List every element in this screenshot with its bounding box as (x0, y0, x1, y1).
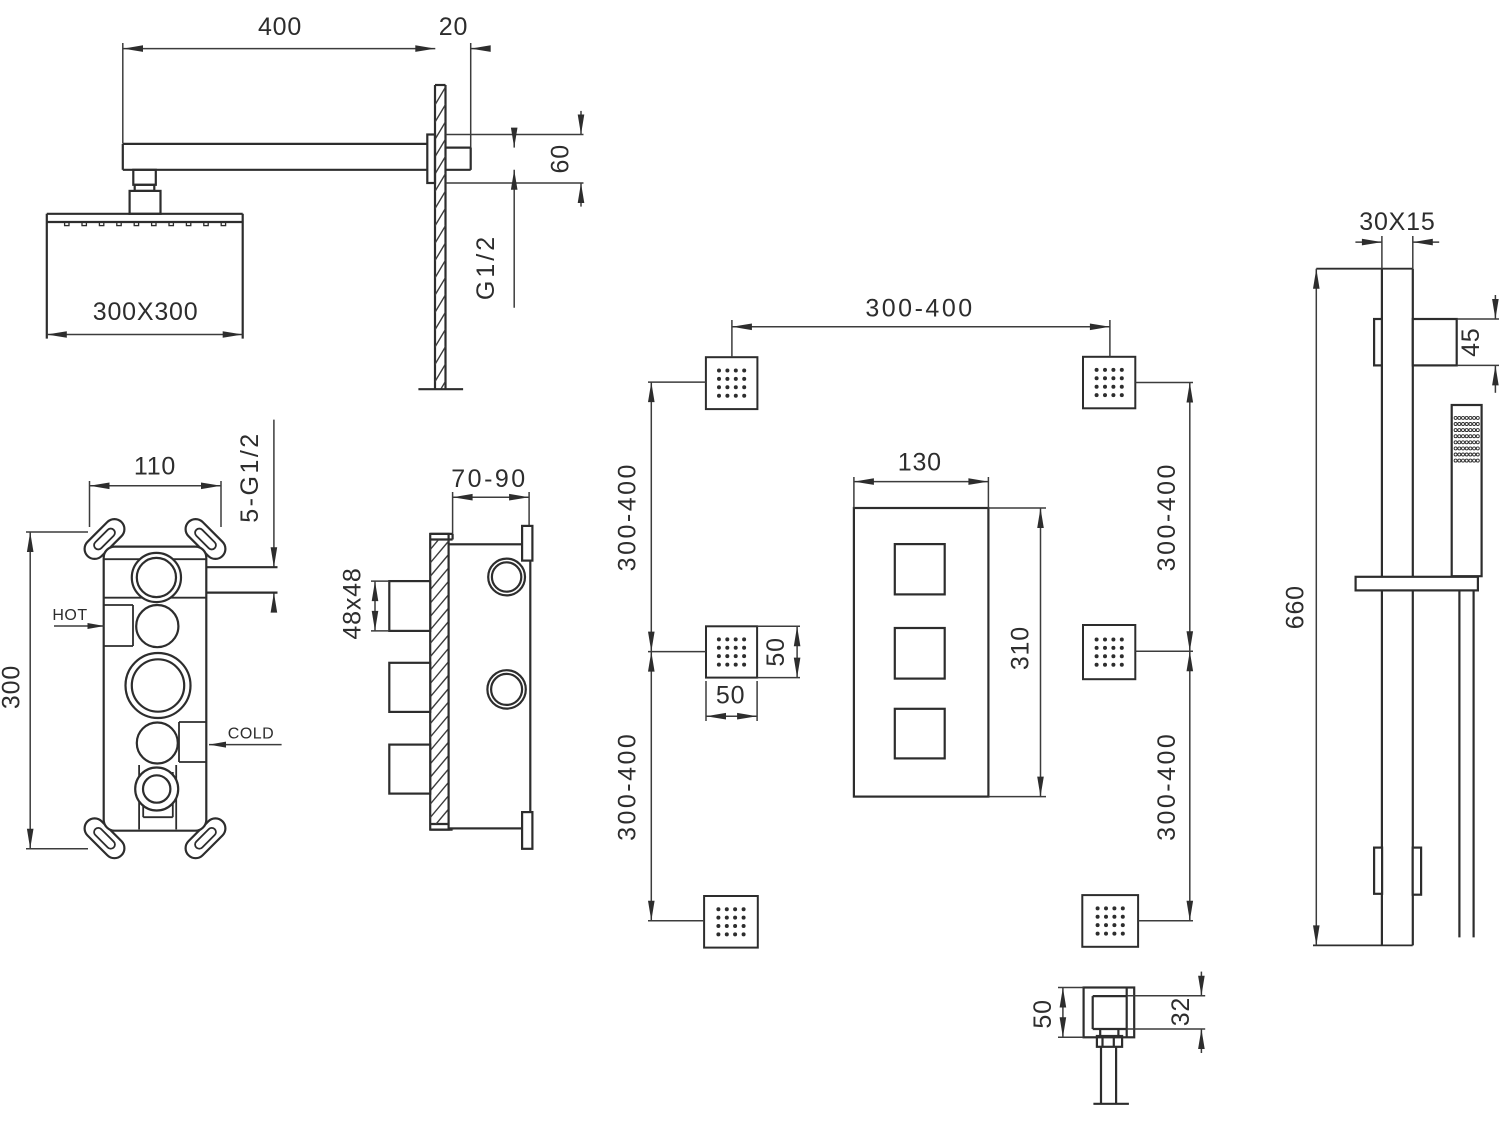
valve body section line 2 (104, 597, 207, 599)
COLD arrow (209, 744, 282, 746)
svg-text:300-400: 300-400 (865, 295, 974, 323)
svg-text:COLD: COLD (228, 725, 274, 742)
svg-text:45: 45 (1457, 327, 1485, 356)
bottom outlet housing (138, 765, 140, 829)
svg-text:5-G1/2: 5-G1/2 (236, 431, 264, 522)
hand shower (1452, 405, 1482, 576)
body jet top-right (1083, 357, 1135, 409)
dimension 5-G1/2 leader (273, 420, 275, 568)
dimension 20 right extension line (470, 43, 472, 170)
rail bottom clamp left (1374, 848, 1382, 894)
svg-text:32: 32 (1167, 997, 1195, 1026)
dimension 300-400 left lower line (650, 652, 652, 921)
valve port circle 1 (132, 553, 181, 602)
slide rail top edge / 660 top extension (1316, 268, 1413, 270)
dimension 300-400 right upper line (1189, 383, 1191, 652)
jet dimension 50 height extensions (757, 625, 800, 627)
dimension 70-90 extension lines (452, 492, 454, 534)
dimension 300 line with arrows (29, 532, 31, 849)
svg-text:300-400: 300-400 (613, 732, 641, 841)
svg-text:310: 310 (1006, 626, 1034, 670)
wall bracket (1413, 319, 1457, 365)
body jet bottom-right (1082, 895, 1138, 947)
svg-text:400: 400 (258, 13, 302, 41)
outlet elbow inner face (1093, 995, 1127, 997)
outlet break line (1093, 1103, 1129, 1105)
valve mounting ear bottom-right (181, 814, 229, 862)
bottom outlet inner window (143, 816, 173, 818)
svg-text:G1/2: G1/2 (472, 234, 500, 300)
outlet elbow body (1084, 988, 1135, 1038)
side fixing tab bottom (522, 812, 532, 849)
svg-text:60: 60 (547, 144, 575, 173)
elbow dimension 32 extensions (1127, 995, 1206, 997)
shower hose (1458, 590, 1460, 937)
dimension 30X15 arrows (1355, 241, 1382, 243)
svg-text:130: 130 (898, 449, 942, 477)
svg-text:30X15: 30X15 (1359, 208, 1435, 236)
dimension 110 extension lines (89, 481, 91, 527)
cold inlet boss (179, 721, 206, 723)
dimension 20 right arrow (471, 48, 487, 50)
rain shower head 300X300 (47, 213, 243, 215)
valve port circle 3 (126, 653, 191, 718)
body jet middle-right (1083, 625, 1135, 679)
slide rail (1381, 269, 1383, 946)
wall section (hatched) (434, 85, 436, 389)
valve mounting ear top-left (80, 515, 128, 563)
svg-text:300X300: 300X300 (93, 298, 199, 326)
control knob square 1 (389, 581, 430, 631)
dimension 130 extension lines (853, 477, 855, 508)
dimension 300 extension lines (26, 531, 88, 533)
side fixing tab top (522, 526, 532, 561)
svg-text:HOT: HOT (52, 607, 87, 624)
side port circle top (488, 559, 525, 596)
dimension 400 left extension line (122, 43, 124, 144)
dimension 45 arrows (1494, 295, 1496, 319)
wall flange escutcheon (427, 135, 435, 184)
svg-text:110: 110 (134, 453, 176, 481)
left dim column extension lines (648, 381, 706, 383)
dimension 300-400 right lower line (1189, 651, 1191, 921)
dimension 45 extension lines (1457, 318, 1499, 320)
dimension 70-90 line with arrows (453, 496, 529, 498)
floor line under wall (418, 388, 463, 390)
dimension 48x48 line with arrows (374, 581, 376, 631)
outlet elbow nut (1097, 1036, 1122, 1047)
svg-text:660: 660 (1282, 585, 1310, 629)
hand shower holder (1356, 577, 1478, 591)
body jet middle-left (706, 626, 757, 677)
valve outlet pipe right (206, 566, 277, 568)
dimension 660 line with arrows (1315, 269, 1317, 946)
jet dimension 50 height line (796, 626, 798, 677)
svg-text:50: 50 (716, 682, 745, 710)
dimension 300X300 line with arrows (47, 334, 243, 336)
dimension 30X15 extension lines (1381, 236, 1383, 269)
valve mounting ear top-right (181, 515, 229, 563)
dimension 130 line with arrows (854, 481, 989, 483)
elbow dimension 50 extensions (1058, 987, 1084, 989)
valve body side view (449, 544, 531, 828)
control knob square 2 (389, 663, 430, 712)
dimension 310 extension lines (988, 507, 1046, 509)
rail bracket pad left (1374, 319, 1382, 365)
valve cartridge circle 2 (136, 605, 178, 647)
arm-to-head swivel cone (130, 191, 161, 214)
jet dimension 50 width line (706, 715, 757, 717)
plate button 2 (895, 628, 945, 679)
dimension 48x48 extension lines (371, 580, 389, 582)
shower arm (123, 143, 428, 145)
valve port circle 5 (135, 768, 178, 811)
svg-text:300-400: 300-400 (613, 462, 641, 571)
svg-text:300: 300 (0, 665, 25, 709)
control plate (854, 508, 989, 797)
dimension 60 arrows (580, 111, 582, 135)
dimension 300-400 left upper line (650, 382, 652, 651)
valve mounting ear bottom-left (80, 814, 128, 862)
elbow dimension 50 line (1062, 988, 1064, 1038)
valve body section line upper (104, 558, 207, 560)
dimension 310 line with arrows (1040, 508, 1042, 797)
svg-text:50: 50 (762, 637, 790, 666)
arm-to-head connector nut (133, 170, 156, 185)
plate button 1 (895, 544, 945, 594)
HOT arrow (54, 625, 105, 627)
right dim column extension lines (1135, 382, 1193, 384)
arm-to-head connector collar (135, 185, 155, 191)
outlet hose tail pipe (1100, 1047, 1102, 1104)
svg-text:70-90: 70-90 (451, 465, 527, 493)
plaster guard (hatched strip) (430, 534, 448, 830)
svg-text:48x48: 48x48 (339, 567, 367, 639)
valve cartridge circle 4 (137, 723, 178, 764)
thread G1/2 leader line (513, 135, 515, 148)
body jet top-left (706, 357, 758, 409)
dimension 300-400 top drop lines (731, 320, 733, 357)
jet dimension 50 width extensions (705, 681, 707, 721)
dimension 400 line with arrows (123, 48, 435, 50)
slide rail bottom edge / 660 bottom extension (1313, 944, 1413, 946)
dimension 300-400 top line with arrows (732, 326, 1110, 328)
svg-text:300-400: 300-400 (1153, 732, 1181, 841)
outlet elbow neck (1099, 1029, 1101, 1036)
side port circle bottom (487, 670, 525, 708)
body jet bottom-left (704, 896, 758, 948)
valve body (104, 547, 207, 831)
control knob square 3 (389, 745, 430, 794)
supply pipe stub behind wall (446, 147, 471, 149)
svg-text:50: 50 (1029, 999, 1057, 1028)
hot inlet boss (104, 604, 133, 606)
elbow dimension 32 arrows (1200, 972, 1202, 996)
rail bottom clamp right (1413, 848, 1421, 895)
plate button 3 (895, 709, 945, 759)
svg-text:300-400: 300-400 (1153, 462, 1181, 571)
svg-text:20: 20 (439, 13, 468, 41)
dimension 110 line with arrows (90, 485, 222, 487)
dimension 60 extension lines (446, 134, 584, 136)
